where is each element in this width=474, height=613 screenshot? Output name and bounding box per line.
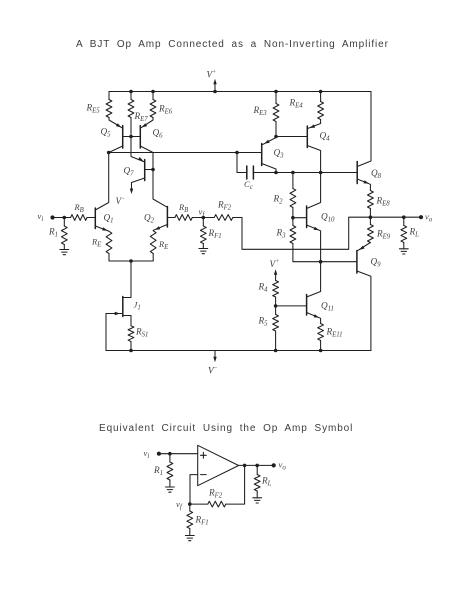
resistor R1 equivalent [167,462,173,480]
wire Q8 emitter [357,179,370,191]
transistor Q4 base bar [306,126,308,148]
wire RE8 to vo node [369,209,371,218]
wire Q7 collector to V- [132,178,145,191]
svg-text:V+: V+ [207,70,217,80]
svg-text:Cc: Cc [244,179,253,191]
wire bottom V- rail [106,350,371,352]
wire R5 top lead [275,306,277,315]
node vf equivalent [188,502,192,506]
wire RE3 top lead [275,92,277,104]
transistor Q9 base bar [356,251,358,274]
resistor RE3 [273,104,279,122]
svg-text:R1: R1 [48,227,58,239]
transistor Q2 base bar [166,207,168,228]
svg-text:RF2: RF2 [217,200,232,212]
svg-text:RE11: RE11 [326,327,343,339]
wire RL top lead equivalent [256,465,258,474]
svg-text:R3: R3 [276,228,287,240]
svg-text:vi: vi [144,448,150,460]
wire R2 top lead [292,173,294,189]
transistor Q7 base bar [144,160,146,181]
svg-text:RB: RB [74,203,84,214]
ground R1 equivalent [166,487,175,492]
wire top V+ rail [109,91,371,93]
wire stage1 node rail [109,152,237,154]
svg-text:RS1: RS1 [135,327,148,339]
wire Q10 collector [307,173,321,209]
wire Q5-Q6 base link [123,136,141,138]
wire Cc branch [237,153,247,173]
wire RE11 to rail [320,341,322,351]
svg-text:V−: V− [116,196,126,206]
node dot Q3C [274,171,278,175]
wire Q2 base lead [167,217,175,219]
svg-text:Q8: Q8 [371,168,382,180]
resistor RL equivalent [254,475,260,492]
arrow Q5 emitter (PNP) [116,123,122,127]
resistor RB right [175,215,192,221]
wire R2 to Q10 base [292,208,294,218]
node dot Q5Q6 base - RE7 [129,135,133,139]
subtitle text [99,423,353,434]
node dot RL top [402,215,406,219]
wire Q11 collector [307,262,321,297]
resistor RE7 [128,100,134,118]
resistor R4 [273,281,279,298]
resistor RF1 [200,226,206,244]
transistor Q3 base bar [261,144,263,166]
wire RL bottom lead [403,243,405,249]
node dot rail-R5 [274,349,278,353]
wire Q7 base lead [145,169,153,171]
arrow Q3 emitter (PNP) [264,140,270,144]
resistor RE11 [318,324,324,341]
resistor RE4 [318,102,324,120]
terminal vi equivalent [157,452,161,456]
node dot Q10 base [291,216,295,220]
wire feedback RF2 to vo node [233,217,371,249]
wire R5 to rail [275,331,277,351]
wire R1 top lead [63,218,65,227]
wire tail to J1 drain [123,261,131,298]
ground R1 [60,250,69,255]
wire Q3 collector [262,164,276,173]
node dot RL top equivalent [255,464,259,468]
wire RF1 top lead equivalent [189,504,191,511]
resistor RF2 equivalent [208,501,226,507]
wire Q6 collector to Q2 collector [140,146,167,207]
svg-text:Q7: Q7 [124,166,135,178]
svg-text:RE8: RE8 [376,196,391,208]
wire Q6 emitter diag [140,118,153,129]
resistor RF2 [214,215,233,221]
svg-text:RL: RL [261,476,272,488]
wire J1 gate to bottom rail [105,314,107,351]
wire RL bottom lead equivalent [256,491,258,498]
wire Q4 emitter diag [308,120,321,129]
ground RF1 equivalent [185,536,194,541]
node dot Q3 base / Cc [235,151,239,155]
svg-text:vf: vf [176,499,183,511]
wire RE7 to Q7 emitter [131,118,145,163]
wire vo line [370,216,421,218]
svg-text:V−: V− [208,366,218,376]
terminal vi [50,215,54,219]
resistor RS1 [128,326,134,342]
wire RE right to tail [131,254,153,262]
wire R3 to Q9 base line [293,244,357,262]
wire J1 source to RS1 [123,316,131,326]
svg-text:RF1: RF1 [195,515,209,527]
wire Q9 collector to rail [357,271,371,351]
svg-text:Q9: Q9 [371,257,382,269]
node dot rail-RS1 [129,349,133,353]
wire RL top lead [403,217,405,225]
wire Q4 base lead [276,136,307,138]
wire R3 top lead [292,218,294,226]
svg-text:Q4: Q4 [320,131,331,143]
svg-text:vi: vi [38,211,44,223]
svg-text:RE7: RE7 [134,111,149,123]
transistor Q1 base bar [94,208,96,229]
resistor RE right [150,231,156,254]
svg-text:Q11: Q11 [321,301,334,313]
transistor Q6 base bar [139,126,141,149]
wire RE6 top lead [152,92,154,100]
wire RB2 to vf [192,217,203,219]
svg-text:R2: R2 [273,194,284,206]
resistor RL [401,226,407,243]
ground RL [399,249,408,254]
op-amp minus input sign [201,474,207,476]
svg-text:Q6: Q6 [153,128,164,140]
resistor RB left [71,215,87,221]
svg-text:Q2: Q2 [144,213,155,225]
wire RF1 top lead [202,218,204,227]
wire RF2 to output equivalent [226,465,245,504]
node dot tail [129,259,133,263]
wire R1 bottom lead equivalent [169,480,171,487]
node dot rail-RE3 [274,90,278,94]
wire RE9 top lead [369,217,371,224]
op-amp U1 triangle [198,445,239,485]
wire RE3 to Q3 node [275,122,277,137]
wire Q3 emitter diag [262,138,276,145]
wire Q10 emitter [307,225,321,262]
arrow Q8 emitter (NPN) [364,180,370,184]
wire Q8 collector to rail [357,92,371,167]
wire RF1 bottom lead [202,244,204,249]
wire vi to op-amp [159,453,198,455]
transistor Q8 base bar [356,162,358,184]
wire Q1 emitter diag [95,226,109,231]
node dot Q10E-Q9B [319,260,323,264]
wire Q3 base lead [237,152,262,154]
wire Q5 emitter diag [109,118,123,129]
wire Cc to node line [253,172,276,174]
wire Q9 emitter diag [357,243,370,251]
svg-text:RE: RE [158,240,169,251]
svg-text:RB: RB [178,203,188,214]
wire RF1 bottom lead equivalent [189,529,191,536]
JFET J1 channel bar [122,297,124,317]
wire op-amp output line [239,464,274,466]
node dot vi-R1 [63,216,67,220]
node dot Q4C-Q10C-Q8B [319,171,323,175]
resistor RE6 [150,100,156,118]
transistor Q11 base bar [306,295,308,316]
node dot vo junction [369,215,373,219]
resistor RE5 [106,100,112,118]
arrow Q10 emitter (NPN) [314,227,320,231]
resistor RE left [106,231,112,253]
transistor Q5 base bar [122,126,124,149]
resistor R3 [290,226,296,244]
arrow Q6 emitter (PNP) [142,123,148,127]
wire second-stage node line [253,172,357,174]
node dot rail-RE6 [151,90,155,94]
wire vf to RF2 equivalent [190,503,208,505]
node dot rail-RE11 [319,349,323,353]
svg-text:RF1: RF1 [208,228,222,240]
arrow Q2 emitter (NPN) [155,226,161,230]
wire Q1 collector [95,153,108,211]
arrow Q7 emitter (PNP) [138,157,144,161]
op-amp plus input sign [201,452,207,458]
arrow Q9 emitter (PNP) [359,246,365,250]
node dot feedback-output [243,464,247,468]
resistor RE9 [368,225,374,243]
resistor R2 [290,189,296,208]
wire Q5 collector diag [109,146,123,153]
resistor RE8 [368,191,374,209]
wire RB to Q1 base [87,217,95,219]
wire Q10 base lead [293,217,307,219]
node dot Q5C-Q1C [107,151,111,155]
arrow Q1 emitter (NPN) [102,227,108,231]
wire RE7 top lead [130,92,132,100]
node dot Q7 base [151,168,155,172]
svg-text:V+: V+ [270,259,280,269]
svg-text:RF2: RF2 [208,488,223,500]
node vf [202,216,206,220]
wire Q11 base lead [276,305,307,307]
svg-text:vo: vo [425,212,433,224]
wire vi to RB [53,217,71,219]
wire RS1 to rail [130,342,132,351]
wire RE left to tail [109,254,131,262]
resistor R1 [61,226,67,245]
supply V- arrow bottom [214,351,216,360]
svg-text:Q3: Q3 [274,148,285,160]
svg-text:R1: R1 [153,465,163,477]
svg-text:RL: RL [409,227,420,239]
transistor Q10 base bar [306,206,308,228]
ground RF1 [199,249,208,254]
resistor RF1 equivalent [187,511,193,529]
wire vf to RF2 [203,217,214,219]
svg-text:J1: J1 [134,300,141,312]
resistor R5 [273,315,279,332]
wire RE4 top lead [320,92,322,102]
wire RE5 top lead [108,92,110,100]
supply V+ arrow Q11 [275,273,277,281]
supply V+ arrow top [214,82,216,92]
title text [76,39,389,50]
wire Q4 collector [307,146,320,173]
wire R4 to Q11 base node [275,297,277,306]
svg-text:RE4: RE4 [289,98,304,110]
svg-text:RE6: RE6 [158,104,173,116]
arrow Q11 emitter (NPN) [314,314,320,318]
ground RL equivalent [253,498,262,503]
node dot rail-RE4 [319,90,323,94]
arrow Q4 emitter (PNP) [309,124,315,128]
svg-text:RE: RE [91,238,102,249]
svg-text:RE9: RE9 [376,229,391,241]
node dot vi-R1 equivalent [168,452,172,456]
wire inverting input to vf [190,475,198,505]
node dot R2 top [291,171,295,175]
svg-text:Q5: Q5 [101,127,112,139]
wire Q2 emitter diag [153,225,167,231]
node dot Q3 emitter / Q4 base [274,135,278,139]
svg-text:Q1: Q1 [104,213,114,225]
svg-text:R5: R5 [258,316,269,328]
wire R1 top lead equivalent [169,454,171,462]
svg-text:Q10: Q10 [321,212,335,224]
node dot Q11 base [274,304,278,308]
node dot rail-RE7 [129,90,133,94]
node dot rail-V+ [213,90,217,94]
terminal vo [419,215,423,219]
capacitor Cc plates [247,166,254,179]
svg-text:R4: R4 [258,282,269,294]
wire J1 gate with arrow [106,313,123,315]
terminal vo equivalent [272,463,276,467]
svg-text:vo: vo [279,460,287,472]
svg-text:RE5: RE5 [86,103,101,115]
wire Q11 emitter [307,313,321,324]
svg-text:RE3: RE3 [253,105,268,117]
wire R1 bottom lead [63,245,65,250]
